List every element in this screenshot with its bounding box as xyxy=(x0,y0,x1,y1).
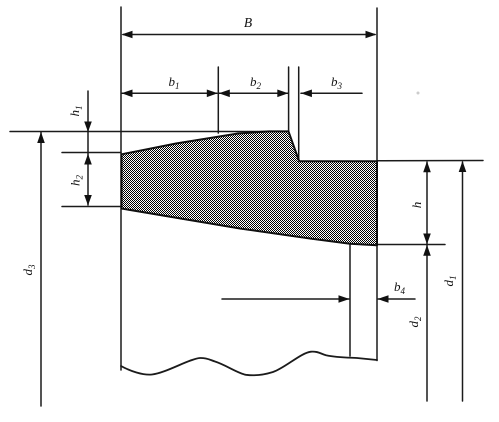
arrow h2 up xyxy=(84,154,92,165)
dimension line h1 h2 xyxy=(87,91,89,205)
svg-text:B: B xyxy=(244,15,252,30)
arrow h up xyxy=(423,161,431,172)
tick at chamfer top corner xyxy=(288,67,290,132)
wire: hub left edge xyxy=(349,245,351,357)
groove top reference line xyxy=(10,131,288,133)
svg-text:h: h xyxy=(409,202,424,209)
arrow b1 right xyxy=(207,90,218,98)
arrow d3 up xyxy=(37,132,45,143)
dimension line b4 left part xyxy=(222,298,349,300)
dimension line d2 xyxy=(426,245,428,401)
arrow b2 left xyxy=(219,90,230,98)
extension line rim bottom right xyxy=(377,244,445,246)
arrow h down xyxy=(423,234,431,245)
wire: right extension line / part right edge xyxy=(376,8,378,361)
arrow d1 up xyxy=(459,161,467,172)
arrow B right xyxy=(366,31,377,39)
dimension line d1 xyxy=(462,162,464,401)
tick between b1 and b2 xyxy=(217,67,219,133)
break line (wavy) xyxy=(121,352,377,376)
arrow h2 down xyxy=(84,195,92,206)
dimension line B xyxy=(123,34,375,36)
tick at chamfer bottom corner xyxy=(298,67,300,161)
dimension line h xyxy=(426,162,428,244)
wire: left extension line / part left edge xyxy=(120,7,122,370)
arrow h1 down xyxy=(84,122,92,133)
dimension line b2 xyxy=(219,92,288,94)
extension line hatch top-left xyxy=(62,152,121,154)
arrow b1 left xyxy=(122,90,133,98)
extension line step surface right xyxy=(377,160,483,162)
dimension line d3 xyxy=(40,132,42,406)
stray scan dot xyxy=(417,92,420,95)
dimension line b4 right part xyxy=(378,298,415,300)
arrow b4 right xyxy=(339,295,350,303)
leader line b3 xyxy=(301,92,362,94)
dimension line b1 xyxy=(122,92,217,94)
arrow b3 xyxy=(301,90,312,98)
arrow d2 up xyxy=(423,245,431,256)
arrow b4 left xyxy=(378,295,389,303)
arrow B left xyxy=(122,31,133,39)
arrow b2 right xyxy=(277,90,288,98)
rim cross-section hatched area xyxy=(122,131,378,245)
extension line hatch bottom-left xyxy=(62,206,121,208)
